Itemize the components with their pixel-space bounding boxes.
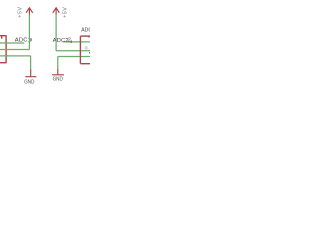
wire GND horizontal (left) — [0, 55, 31, 57]
wire GND horizontal (right) — [58, 56, 90, 58]
svg-text:ADC1: ADC1 — [15, 38, 31, 44]
wire GND vertical (right) — [57, 57, 59, 69]
wire +5V horizontal (right) — [56, 50, 90, 52]
svg-text:ADC: ADC — [81, 27, 90, 33]
power symbol +5V (right) arrow — [53, 8, 60, 15]
wire GND vertical (left) — [30, 56, 32, 69]
wire net ADC2 horizontal — [63, 41, 90, 43]
label ADC1 tail mark — [30, 38, 31, 41]
wire +5V vertical (right) — [55, 15, 57, 51]
svg-text:+5V: +5V — [63, 7, 69, 18]
connector J2 (right, clipped at image edge) — [80, 36, 91, 64]
ground symbol (left) — [25, 69, 36, 77]
wire +5V vertical (left) — [28, 15, 30, 50]
svg-text:ADC2: ADC2 — [53, 38, 69, 44]
wire net ADC1 horizontal — [0, 42, 24, 44]
power symbol +5V (left) arrow — [26, 8, 33, 15]
svg-text:GND: GND — [24, 79, 34, 85]
label ADC2 tail tick — [70, 40, 73, 43]
svg-text:2: 2 — [68, 37, 71, 43]
ground symbol (right) — [52, 69, 64, 75]
connector J2 inner marks — [88, 36, 89, 37]
svg-text:GND: GND — [53, 77, 63, 83]
wire +5V horizontal (left) — [0, 49, 29, 51]
svg-text:+5V: +5V — [17, 6, 23, 17]
connector J1 (left, clipped at image edge) — [0, 36, 7, 63]
